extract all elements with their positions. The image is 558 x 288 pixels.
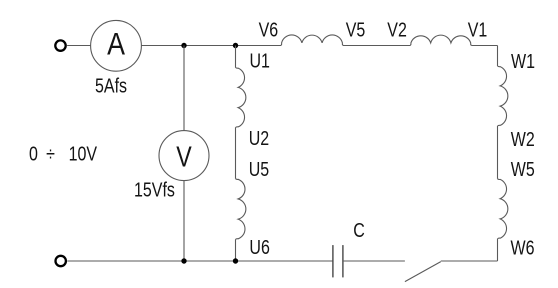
svg-text:5Afs: 5Afs [95,75,127,97]
wire node B down to coil U1 [235,46,237,68]
wire U2 to U5 [235,128,237,179]
capacitor C right plate [342,245,344,277]
svg-text:A: A [107,28,125,62]
wire ammeter to node B (top) [141,45,281,47]
inductor W5-W6 [498,179,508,239]
svg-text:V5: V5 [346,19,366,41]
svg-text:U6: U6 [249,236,269,258]
wire V1 to right corner [471,45,497,47]
svg-text:15Vfs: 15Vfs [134,179,175,201]
svg-text:V2: V2 [387,19,407,41]
wire capacitor to switch contact [343,260,405,262]
wire V5 to V2 [343,45,410,47]
svg-text:V1: V1 [468,19,488,41]
wire switch to bottom right corner [441,260,498,262]
svg-text:V: V [176,140,192,173]
wire W2 to W5 [497,126,499,179]
terminal T1 (top left) [55,40,65,50]
wire U6 down to node D [235,239,237,261]
node B junction dot (top, x=235.5) [233,43,238,48]
inductor V2-V1 [410,35,471,45]
voltmeter V1 circle [159,131,209,181]
inductor U5-U6 [236,179,246,240]
wire W6 down to bottom right corner [497,239,499,261]
ammeter A1 circle [91,20,142,71]
svg-text:U5: U5 [249,158,269,180]
svg-text:V6: V6 [259,19,279,41]
inductor V6-V5 [281,35,343,46]
inductor U1-U2 [236,68,246,128]
svg-text:W6: W6 [511,237,535,259]
svg-text:W5: W5 [511,158,535,180]
wire node A down to voltmeter [183,46,185,131]
node A junction dot (top, x=184) [181,43,186,48]
wire T2 to capacitor [67,260,333,262]
svg-text:W2: W2 [511,128,535,150]
switch S1 blade (open) [405,262,441,282]
capacitor C left plate [332,245,334,277]
wire T1 to ammeter [67,45,91,47]
terminal T2 (bottom left) [56,256,66,266]
node D junction dot (bottom, x=235.5) [233,258,238,263]
svg-text:W1: W1 [511,50,535,72]
inductor W1-W2 [498,66,508,126]
svg-text:C: C [353,219,365,241]
svg-text:÷: ÷ [46,143,55,165]
svg-text:U1: U1 [250,50,270,72]
wire right corner down to coil W1 [497,46,499,67]
svg-text:U2: U2 [249,128,269,150]
wire voltmeter down to node C [183,181,185,261]
node C junction dot (bottom, x=184) [181,258,186,263]
svg-text:10V: 10V [69,143,97,165]
svg-text:0: 0 [29,143,38,165]
